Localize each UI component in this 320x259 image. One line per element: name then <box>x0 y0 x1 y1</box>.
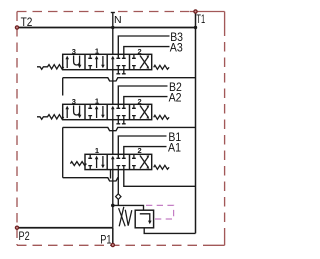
svg-text:3: 3 <box>72 97 76 106</box>
wire A3 line <box>122 47 170 59</box>
svg-text:A1: A1 <box>168 143 181 155</box>
svg-text:P2: P2 <box>19 229 30 243</box>
valve V1 box3 crossed arrows <box>132 154 149 169</box>
svg-text:P1: P1 <box>100 232 111 246</box>
valve V1 section (bottom) body <box>85 154 152 169</box>
node T2 (red) <box>15 26 18 29</box>
wire B3 line <box>116 36 169 58</box>
valve V3 box4 crossed arrows <box>132 54 149 69</box>
wire B1 line <box>116 136 166 158</box>
svg-text:2: 2 <box>138 47 142 56</box>
wire bypass line with hop below V1 <box>63 178 119 181</box>
wire relief outlet to tank collector <box>144 228 195 234</box>
wire N inlet riser <box>111 13 115 55</box>
wire N riser V2-V1 <box>112 120 114 155</box>
valve V2 left return spring with lever notch <box>37 115 64 120</box>
valve V2 box2 neutral symbols <box>88 104 104 119</box>
relief valve RV1 adjustment arrow <box>119 207 124 227</box>
svg-text:1: 1 <box>95 97 99 106</box>
node T1 (red) <box>194 10 197 13</box>
wire V2 return line with hop to T1 <box>63 127 196 130</box>
enclosure dashed boundary <box>17 12 225 246</box>
wire check valve to relief junction <box>117 199 119 205</box>
valve V3 box3 open-center passage <box>111 56 126 74</box>
svg-text:A2: A2 <box>169 93 182 105</box>
svg-text:2: 2 <box>138 97 142 106</box>
wire N riser V3-V2 <box>112 70 114 105</box>
wire relief supply line <box>113 205 144 210</box>
junction T-line x T1 vertical <box>194 26 197 29</box>
valve V1 right spring <box>154 165 169 169</box>
svg-text:A3: A3 <box>170 43 183 55</box>
wire V3 return line with hop to T1 <box>63 78 196 81</box>
svg-text:1: 1 <box>95 47 99 56</box>
valve V2 right spring <box>154 115 169 119</box>
valve V2 box1 arrows (float position) <box>65 106 81 119</box>
valve V1 box1 neutral symbols <box>88 154 104 169</box>
svg-text:2: 2 <box>138 146 142 155</box>
svg-text:3: 3 <box>72 47 76 56</box>
wire V3 loop vertical <box>62 78 64 96</box>
wire P2 inlet line <box>17 227 113 229</box>
valve V2 box3 open-center passage <box>111 106 126 124</box>
wire check valve riser <box>117 170 119 194</box>
wire N riser V1 down to relief junction <box>112 170 114 228</box>
valve V3 box1 arrows (float position) <box>65 56 81 69</box>
svg-text:T1: T1 <box>196 12 205 26</box>
wire P1 drop to boundary <box>112 228 114 245</box>
relief valve RV1 spring <box>119 208 132 226</box>
wire B2 line <box>116 86 167 108</box>
wire V2 loop vertical down to bypass <box>62 127 64 177</box>
valve V3 section (top) body <box>63 54 152 69</box>
valve V3 left return spring with lever notch <box>37 65 64 70</box>
valve V3 box2 neutral symbols <box>88 54 104 69</box>
node P2 (red) <box>15 226 18 229</box>
relief valve RV1 internal arrow <box>140 214 150 222</box>
wire V1 B-port return to T1 <box>124 170 196 187</box>
wire V1 port stub to bypass <box>110 170 112 179</box>
valve V2 section (middle) body <box>63 104 152 119</box>
wire A1 line <box>122 147 167 159</box>
check valve CV1 <box>116 194 121 200</box>
wire T1 vertical <box>195 12 197 234</box>
valve V1 box2 open-center passage <box>111 156 126 170</box>
node P1 (red) <box>111 243 114 246</box>
valve V3 right spring <box>154 65 169 69</box>
wire A2 line <box>122 97 168 109</box>
relief valve RV1 body <box>135 210 153 228</box>
junction N x T-line <box>111 26 114 29</box>
relief valve RV1 pilot line (magenta dashed) <box>146 205 174 219</box>
wire T2-T1 tank line <box>17 27 196 29</box>
junction relief pilot node <box>111 204 115 208</box>
valve V1 left return spring <box>70 162 86 166</box>
svg-text:N: N <box>114 14 122 26</box>
svg-text:1: 1 <box>95 146 99 155</box>
valve V2 box4 crossed arrows <box>132 104 149 119</box>
